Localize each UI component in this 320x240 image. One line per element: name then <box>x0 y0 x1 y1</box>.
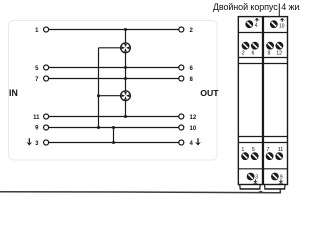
terminal circle 9 <box>44 125 49 130</box>
svg-text:10: 10 <box>279 23 285 29</box>
gas discharge arrester F1 <box>121 43 131 53</box>
junction dot row7/vertical A <box>124 77 127 80</box>
gas discharge arrester F2 <box>121 91 131 101</box>
screw terminal 7 <box>266 152 274 160</box>
wire vertical A (through both arresters) <box>125 30 127 117</box>
earth arrow module2 bottom <box>278 179 283 184</box>
svg-text:8: 8 <box>268 51 271 57</box>
svg-text:IN: IN <box>9 88 18 98</box>
junction dot row11/vertical A <box>124 115 127 118</box>
svg-text:1: 1 <box>241 147 244 153</box>
terminal circle 8 <box>179 76 184 81</box>
svg-text:OUT: OUT <box>200 88 219 98</box>
module 1 foot <box>240 185 261 190</box>
junction dot row9/vertical B <box>97 126 100 129</box>
svg-text:11: 11 <box>33 115 40 121</box>
terminal circle 10 <box>179 125 184 130</box>
screw terminal 9 (module2 bottom) <box>271 173 279 181</box>
terminal circle 6 <box>179 65 184 70</box>
svg-text:2: 2 <box>242 51 245 57</box>
screw terminal 1 <box>241 152 249 160</box>
earth line junction mark <box>258 191 263 192</box>
svg-text:9: 9 <box>280 175 283 181</box>
svg-text:6: 6 <box>252 51 255 57</box>
terminal circle 12 <box>179 114 184 119</box>
svg-text:10: 10 <box>190 126 197 132</box>
svg-text:12: 12 <box>190 115 197 121</box>
wire row 5-6 <box>49 67 179 69</box>
svg-text:12: 12 <box>276 51 282 57</box>
module 2 body <box>263 17 287 185</box>
wire vertical C <box>113 128 115 143</box>
svg-text:5: 5 <box>252 147 255 153</box>
screw terminal 10 (module2 top) <box>270 20 278 28</box>
wire stub to arrester F2 left <box>99 95 122 97</box>
svg-text:11: 11 <box>278 147 284 153</box>
terminal circle 2 <box>179 27 184 32</box>
surge arrow module2 top <box>280 18 285 22</box>
wire row 7-8 <box>49 78 179 80</box>
screw terminal 2 <box>242 42 250 50</box>
screw terminal 11 <box>275 152 283 160</box>
module 2 dividers <box>264 33 288 169</box>
earth arrow left of 3 <box>26 138 32 145</box>
screw terminal 8 <box>266 42 274 50</box>
junction dot vertical B/F2 stub <box>97 94 100 97</box>
earth line <box>0 189 280 193</box>
earth arrow module1 bottom <box>253 179 258 184</box>
screw terminal 3 (module1 bottom) <box>247 173 255 181</box>
wire row 11-12 <box>49 116 179 118</box>
screw terminal 6 <box>251 42 259 50</box>
junction dot row3/vertical C <box>112 141 115 144</box>
terminal circle 3 <box>44 140 49 145</box>
wire row 9-10 <box>49 127 179 129</box>
wire row 1-2 <box>49 29 179 31</box>
terminal circle 4 <box>179 140 184 145</box>
junction dot row9/vertical C <box>112 126 115 129</box>
module 1 body <box>238 17 262 185</box>
wire stub to arrester F1 left <box>99 47 122 49</box>
svg-text:4: 4 <box>255 23 258 29</box>
wire vertical B <box>98 48 100 128</box>
svg-text:Двойной корпус: Двойной корпус <box>213 2 278 12</box>
junction dot row1/vertical A <box>124 28 127 31</box>
screw terminal 12 <box>276 42 284 50</box>
svg-text:7: 7 <box>266 147 269 153</box>
svg-text:4 жил: 4 жил <box>281 2 300 12</box>
screw terminal 4 (module1 top) <box>245 20 253 28</box>
module 2 foot <box>264 185 285 190</box>
terminal circle 1 <box>44 27 49 32</box>
terminal circle 11 <box>44 114 49 119</box>
leader line <box>278 4 280 17</box>
surge arrow module1 top <box>254 18 259 22</box>
module 1 dividers <box>238 33 262 169</box>
earth arrow right of 4 <box>195 138 201 145</box>
frame (faint rounded border around schematic) <box>9 21 218 161</box>
wire row 3-4 <box>49 142 179 144</box>
junction dot row5/vertical A <box>124 66 127 69</box>
screw terminal 5 <box>251 152 259 160</box>
terminal circle 5 <box>44 65 49 70</box>
terminal circle 7 <box>44 76 49 81</box>
